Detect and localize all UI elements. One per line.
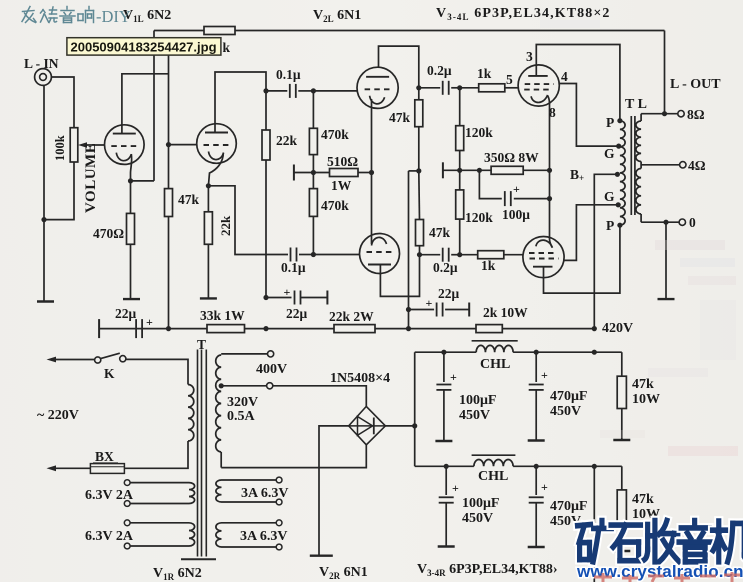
scan ghost artifacts (540, 20, 738, 544)
wire 0.2u top row (419, 87, 440, 89)
wire bar to node (443, 169, 460, 171)
ground 47k-1 (613, 439, 630, 441)
junction 47k column (416, 168, 421, 173)
svg-text:4Ω: 4Ω (688, 158, 706, 173)
wire 0.2u bottom row (420, 254, 441, 256)
svg-text:100μF: 100μF (459, 393, 497, 408)
capacitor 0.1u bottom (290, 248, 292, 262)
resistor 1k bottom grid (478, 251, 504, 259)
svg-text:470k: 470k (321, 127, 349, 142)
svg-text:450V: 450V (462, 511, 493, 526)
transformer T primary coil (188, 385, 194, 441)
wire 47k-1 bottom (621, 409, 623, 441)
capacitor 100uF-1 (443, 352, 445, 382)
svg-text:+: + (450, 370, 457, 384)
svg-text:47k: 47k (178, 192, 200, 207)
wire V2L cathode bus (371, 99, 373, 244)
wire 4ohm lead (641, 164, 680, 166)
junction V1 plate / V2 grid (166, 142, 171, 147)
wire B+ feed to right channel (593, 466, 595, 582)
svg-text:+: + (541, 368, 548, 382)
tube V2L-a 6N1 triode (357, 67, 398, 108)
filament winding 6.3V-2A #2 (189, 523, 195, 546)
capacitor 22u-4 (436, 303, 438, 317)
terminal bar 510 row (293, 165, 295, 181)
wire V2 cathode to lower grid loop (208, 186, 288, 255)
resistor 47k V1 load (165, 189, 173, 217)
svg-text:+: + (452, 481, 459, 495)
junction cathode bus (369, 170, 374, 175)
ground under 22k (200, 297, 217, 299)
wire V2 cathode drop (208, 153, 223, 186)
wire 320V tap (221, 385, 266, 387)
wire HV bottom to bridge (221, 445, 366, 468)
junction 0.2u-top/120k (457, 85, 462, 90)
wire 22k coupling leads (265, 91, 267, 130)
wire 47k-1 drop (621, 352, 623, 376)
terminal bar 22u-4 (468, 303, 470, 317)
input jack L-IN (35, 69, 52, 86)
resistor 33k 1W (207, 325, 245, 333)
wire long drop x408 (408, 171, 410, 329)
junction 0/ground (663, 220, 668, 225)
resistor 2k 10W (476, 325, 502, 333)
transformer TL primary coil (620, 121, 625, 225)
ground under TL (658, 298, 675, 300)
wire V4L plate loop (544, 225, 620, 293)
svg-text:K: K (104, 366, 115, 381)
wire primary bottom (124, 441, 188, 468)
wire bridge minus (319, 426, 349, 556)
resistor 22k V2 cathode (204, 212, 212, 245)
svg-text:+: + (513, 182, 520, 196)
wire cathode to feedback (131, 180, 155, 182)
bridge rectifier 1N5408x4 (349, 406, 386, 444)
terminal 0 (679, 219, 685, 225)
svg-text:470μF: 470μF (550, 389, 588, 404)
transformer TL secondary coil (640, 114, 642, 121)
svg-text:450V: 450V (459, 408, 490, 423)
svg-text:CHL: CHL (480, 357, 510, 372)
wire B+ rail (99, 328, 594, 330)
junction P bottom (617, 223, 622, 228)
junction 470k bottom (311, 252, 316, 257)
wire 510 to cathodes (358, 172, 372, 174)
svg-text:47k: 47k (389, 110, 411, 125)
svg-text:1k: 1k (477, 66, 492, 81)
capacitor 470uF-1 (535, 352, 537, 382)
svg-text:22μ: 22μ (286, 306, 308, 321)
wire bridge plus (385, 425, 414, 427)
resistor feedback on rail (204, 27, 235, 35)
ground under 470ohm (123, 298, 140, 300)
wire 47k-2 drop (621, 466, 623, 490)
capacitor 22u bias 2 (294, 291, 296, 305)
svg-text:420V: 420V (602, 321, 633, 336)
value label 22k (rotated) (218, 215, 233, 236)
resistor 22k coupling (262, 130, 270, 160)
svg-text:0.5A: 0.5A (227, 409, 256, 424)
resistor 470k upper (309, 128, 317, 154)
wire 22k col to rail (263, 326, 268, 331)
svg-text:3: 3 (526, 49, 533, 64)
resistor 470ohm cathode (127, 213, 135, 244)
svg-text:47k: 47k (429, 225, 451, 240)
junction V2 plate node (263, 88, 268, 93)
wire node to 1k b (460, 254, 478, 256)
tube V1L-a 6N2 triode (105, 125, 145, 165)
svg-text:350Ω 8W: 350Ω 8W (484, 150, 539, 165)
terminal 4ohm (680, 162, 686, 168)
wire V3L plate loop (536, 45, 620, 121)
wire filter row lower (415, 465, 474, 467)
wire 22u-2 row (266, 297, 292, 299)
svg-text:400V: 400V (256, 362, 287, 377)
wire 22u-4 row (409, 309, 435, 311)
junction B+ tap (615, 172, 620, 177)
junction P top (617, 118, 622, 123)
resistor 47k V2L-a load (415, 100, 423, 127)
wire jack ground drop (43, 85, 45, 301)
wire 0.1u top row right (298, 90, 313, 92)
wire feedback vertical x154 (153, 31, 155, 181)
wire top rail (154, 30, 665, 32)
svg-text:8Ω: 8Ω (687, 107, 705, 122)
ground 470uF-2 (528, 546, 545, 548)
junction 470k mid (311, 170, 316, 175)
tube V4L 6P3P lower flipped (523, 237, 564, 278)
svg-text:T: T (197, 337, 206, 352)
svg-text:+: + (541, 480, 548, 494)
wire V4L g2 (564, 205, 618, 261)
potentiometer 100k volume (70, 128, 78, 162)
wire 47k-b leads (418, 171, 421, 220)
value label 100k (rotated) (53, 135, 67, 161)
wire 470k chain (312, 91, 314, 128)
svg-text:VOLUME: VOLUME (83, 143, 99, 213)
junction 100uF-1 top (441, 350, 446, 355)
resistor 350ohm 8W (491, 166, 523, 174)
wire 400V tap (221, 353, 267, 355)
resistor 120k lower (456, 190, 464, 219)
wire 22k cathode leads (207, 186, 209, 212)
junction V1 cathode (128, 178, 133, 183)
wire cap to node b (451, 254, 460, 256)
svg-text:22μ: 22μ (438, 286, 460, 301)
svg-text:10W: 10W (632, 392, 660, 407)
capacitor 100uF-2 (445, 466, 447, 495)
terminal 400V (268, 351, 274, 357)
junction V2L-a plate node (416, 85, 421, 90)
capacitor 0.2u top (442, 81, 444, 95)
svg-text:22k 2W: 22k 2W (329, 309, 374, 324)
wire switch to primary (126, 359, 188, 384)
junction G1 (616, 144, 621, 149)
terminal bar rail left (98, 319, 100, 338)
wire jack to volume pot (51, 77, 74, 128)
svg-text:1W: 1W (331, 178, 352, 193)
junction rail/B+ (592, 326, 597, 331)
capacitor 0.1u top (289, 84, 291, 98)
junction 8ohm/feedback (662, 111, 667, 116)
svg-text:3A 6.3V: 3A 6.3V (241, 486, 288, 501)
wire 120k lower leads (459, 170, 461, 190)
wire 47k-a leads (418, 88, 420, 100)
junction 470uF-1 top (534, 350, 539, 355)
fuse BX (90, 464, 124, 474)
svg-text:P: P (606, 115, 614, 130)
ground PSU main (310, 555, 333, 557)
wire pot bottom return (44, 162, 74, 220)
wire 120k upper leads (459, 88, 461, 126)
svg-text:P: P (606, 218, 614, 233)
svg-text:470k: 470k (321, 198, 349, 213)
junction 47k/bottom rail (166, 326, 171, 331)
svg-text:G: G (604, 189, 615, 204)
tube V3L 6P3P upper (518, 65, 559, 106)
transformer TL core (630, 116, 632, 215)
title glyph fa (22, 7, 36, 23)
wire 47k-2 bottom (621, 523, 623, 551)
junction pot-return/ground (41, 217, 46, 222)
svg-text:+: + (284, 285, 291, 299)
wire 47k to rail (168, 217, 170, 329)
junction 22k/22u row (263, 295, 268, 300)
resistor 47k 10W upper (617, 376, 626, 408)
filament winding 3A-6.3V #2 (216, 523, 222, 547)
wire B+ tap to rail (594, 174, 617, 328)
choke CHL lower (474, 459, 513, 466)
junction cathode bus top (547, 168, 552, 173)
ground 100uF-1 (435, 440, 452, 442)
svg-text:2k 10W: 2k 10W (483, 305, 528, 320)
resistor 1k top grid (479, 84, 505, 92)
capacitor 470uF-2 (535, 466, 537, 495)
junction 0.1u/470k chain (311, 88, 316, 93)
svg-text:BX: BX (95, 449, 114, 464)
switch K (95, 357, 101, 363)
svg-text:320V: 320V (227, 395, 258, 410)
wire rail right drop to 8ohm (664, 31, 666, 114)
tooltip filename box (67, 38, 221, 55)
terminal 320V (267, 383, 273, 389)
wire 0.1u top row left (266, 90, 287, 92)
terminal 8ohm (678, 111, 684, 117)
svg-text:33k 1W: 33k 1W (200, 308, 245, 323)
svg-text:47k: 47k (632, 492, 654, 507)
svg-text:V2R 6N1: V2R 6N1 (319, 565, 368, 581)
svg-text:1k: 1k (481, 258, 496, 273)
svg-text:6.3V 2A: 6.3V 2A (85, 488, 134, 503)
watermark char kuang (578, 521, 612, 562)
junction B+ row lower (592, 464, 597, 469)
wire to V2L grid (313, 90, 357, 92)
svg-text:V2L 6N1: V2L 6N1 (313, 8, 361, 24)
wire 8ohm lead (641, 113, 678, 115)
svg-text:100k: 100k (53, 135, 67, 161)
wire 0 lead (641, 221, 679, 223)
wire 100u branch down (479, 170, 501, 198)
pot wiper arrow (82, 144, 105, 146)
junction 100u branch (477, 168, 482, 173)
wire output cathode bus (549, 103, 551, 240)
junction 320V tap (219, 383, 224, 388)
ground 100uF-2 (438, 545, 455, 547)
terminal bar 350 row (442, 162, 444, 178)
watermark char shi (611, 525, 642, 561)
ground input (37, 300, 54, 302)
svg-text:1N5408×4: 1N5408×4 (330, 371, 390, 386)
svg-text:0.1μ: 0.1μ (276, 67, 301, 82)
filament winding 6.3V-2A #1 (189, 483, 195, 504)
wire V2 plate loop (215, 72, 266, 133)
wire bar to chain (294, 172, 330, 174)
junction G2 (616, 202, 621, 207)
svg-text:~ 220V: ~ 220V (37, 408, 79, 423)
wire V2L-a plate loop (379, 46, 419, 88)
wire filter row upper (415, 351, 477, 353)
capacitor 22u rail left (135, 319, 137, 338)
choke CHL upper (476, 345, 513, 352)
wire cathode resistor leads (130, 181, 132, 214)
wire 22u-4 right (445, 309, 469, 311)
terminal bar 22u-2 (326, 291, 328, 305)
svg-text:20050904183254427.jpg: 20050904183254427.jpg (71, 39, 217, 54)
resistor 22k 2W (334, 325, 375, 333)
svg-text:22k: 22k (276, 133, 298, 148)
svg-text:CHL: CHL (478, 469, 508, 484)
wire filter input vertical (414, 352, 416, 466)
wire mains bottom arrow (52, 467, 90, 469)
resistor 47k V2L-b load (416, 220, 424, 246)
wire 22u-2 right (301, 297, 328, 299)
svg-text:3A 6.3V: 3A 6.3V (240, 529, 287, 544)
filament winding 3A-6.3V #1 (216, 480, 222, 502)
junction 350row/120k (457, 168, 462, 173)
wire 100u to cathode (514, 198, 550, 200)
title glyph xiang (78, 7, 94, 23)
wire 1k to pin5 (505, 87, 518, 89)
svg-text:8: 8 (549, 105, 556, 120)
svg-text:V1R 6N2: V1R 6N2 (153, 566, 202, 582)
junction long drop / 22u-4 row (406, 307, 411, 312)
svg-text:100μF: 100μF (462, 496, 500, 511)
junction long drop / rail (406, 326, 411, 331)
wire cap to node (451, 87, 460, 89)
wire V3L pin4 (559, 84, 618, 147)
wire 0.1u bottom right (299, 254, 313, 256)
svg-text:G: G (604, 146, 615, 161)
svg-text:+: + (146, 315, 153, 329)
wire grid to V2 (169, 144, 197, 146)
svg-text:6.3V 2A: 6.3V 2A (85, 529, 134, 544)
wire node to 1k (460, 87, 479, 89)
watermark char yin (679, 521, 711, 562)
resistor 510ohm 1W (330, 169, 359, 177)
tube V1L-b 6N2 triode (197, 124, 237, 164)
svg-text:510Ω: 510Ω (327, 154, 358, 169)
resistor 470k lower (309, 189, 317, 217)
wire node to 100u branch (460, 169, 491, 171)
svg-text:L - IN: L - IN (24, 56, 59, 71)
junction 470uF-2 top (534, 464, 539, 469)
ground 47k-2 (613, 550, 630, 552)
watermark red partial bottom (594, 572, 740, 582)
svg-text:4: 4 (561, 69, 568, 84)
watermark char shou (645, 521, 679, 562)
junction V2L-b plate node (417, 252, 422, 257)
label VOLUME (rotated) (83, 143, 99, 213)
title glyph shao (41, 7, 58, 23)
svg-text:470Ω: 470Ω (93, 226, 124, 241)
junction 100u/cathode (547, 196, 552, 201)
svg-text:T L: T L (625, 97, 647, 112)
wire V1 cathode lead (131, 154, 132, 181)
svg-text:22k: 22k (218, 215, 233, 236)
svg-text:120k: 120k (465, 210, 493, 225)
svg-text:0.1μ: 0.1μ (281, 260, 306, 275)
wire to V2L-b grid (313, 254, 359, 256)
svg-text:+: + (426, 296, 433, 310)
junction 100uF-2 top (444, 464, 449, 469)
wire plate-node vertical x168 (168, 50, 170, 189)
transformer T HV secondary coil (216, 355, 222, 452)
title glyph yin (60, 7, 75, 23)
capacitor 100u (504, 191, 506, 206)
svg-text:5: 5 (506, 72, 513, 87)
tube V2L-b 6N1 triode flipped (360, 234, 400, 274)
junction V2 cathode (206, 183, 211, 188)
svg-text:0.2μ: 0.2μ (427, 63, 452, 78)
wire 0 to ground (665, 222, 667, 299)
wire mains top arrow (52, 359, 94, 361)
watermark char ji (713, 521, 743, 562)
wire 350 to cathode bus (523, 169, 549, 171)
junction B+ row upper (592, 350, 597, 355)
wire 320V to bridge (273, 386, 367, 407)
ground 470uF-1 (528, 439, 545, 441)
junction bridge plus (412, 423, 417, 428)
svg-text:47k: 47k (632, 377, 654, 392)
svg-text:k: k (223, 40, 231, 55)
wire V1 plate up (122, 74, 169, 134)
svg-text:120k: 120k (465, 125, 493, 140)
junction 0.2u-bot/120k (457, 252, 462, 257)
core bottom bar (181, 558, 216, 560)
svg-text:100μ: 100μ (502, 207, 530, 222)
wire V2L-b plate loop (380, 255, 419, 297)
wire 1k to lower grid (504, 254, 523, 256)
svg-text:470μF: 470μF (550, 499, 588, 514)
svg-text:0.2μ: 0.2μ (433, 260, 458, 275)
svg-text:0: 0 (689, 215, 696, 230)
svg-text:L - OUT: L - OUT (670, 77, 721, 92)
resistor 120k upper (456, 126, 464, 151)
resistor 47k 10W lower (617, 490, 626, 523)
capacitor 0.2u bottom (442, 248, 444, 262)
transformer T core (197, 350, 199, 557)
svg-text:450V: 450V (550, 404, 581, 419)
svg-text:-DIY: -DIY (96, 7, 131, 26)
svg-text:22μ: 22μ (115, 306, 137, 321)
wire jog to long drop (409, 170, 419, 172)
